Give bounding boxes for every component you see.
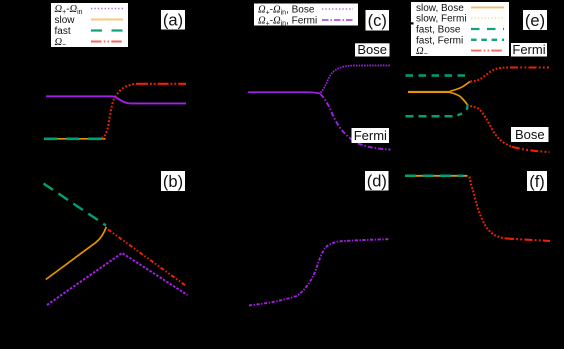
svg-text:fast, Bose: fast, Bose — [416, 25, 461, 36]
red lower Bose curve (e) — [470, 106, 512, 147]
red omega-minus rise (a) — [102, 84, 138, 138]
label (c) — [366, 10, 390, 31]
purple omega-plus curve (a) — [46, 96, 186, 103]
label Fermi (c) — [352, 128, 390, 143]
axis tick mark over legend box — [411, 22, 414, 24]
green tick at lower fork end (e) — [466, 105, 469, 111]
green fast line (b) — [44, 184, 107, 226]
purple sigmoid (d) — [249, 239, 390, 305]
label (f) — [527, 171, 547, 191]
svg-text:slow, Bose: slow, Bose — [416, 3, 464, 14]
green fast-Fermi bottom dashes (e) — [406, 114, 463, 117]
red lower Bose flat tail (e) — [512, 147, 550, 152]
red upper Fermi curve rise (e) — [470, 68, 510, 82]
red upper Fermi flat (e) — [510, 66, 549, 68]
label (a) — [161, 10, 185, 30]
label Bose (e) — [511, 127, 549, 142]
legend box (e) — [411, 2, 509, 56]
red omega-minus flat (a) — [137, 83, 186, 85]
orange slow line (b) — [46, 227, 107, 280]
svg-text:(e): (e) — [525, 12, 545, 30]
red omega-minus tail (f) — [506, 238, 550, 241]
orange lower fork (e) — [450, 93, 468, 105]
legend box (c) — [254, 4, 358, 26]
svg-text:fast: fast — [55, 26, 71, 37]
label Bose (c) — [355, 43, 390, 56]
svg-text:(f): (f) — [529, 173, 545, 191]
green fast dashes (f) — [405, 175, 464, 178]
svg-text:(b): (b) — [163, 173, 183, 191]
green fast-Bose top dashes (e) — [406, 74, 467, 77]
purple main horizontal (c) — [248, 92, 321, 93]
label (d) — [365, 171, 389, 191]
red omega-minus descent (f) — [469, 177, 506, 239]
purple Fermi branch dash-dot (c) — [321, 94, 391, 150]
orange slow curve (a) — [44, 138, 106, 140]
red omega-minus line (b) — [108, 230, 186, 287]
purple Bose branch dotted (c) — [321, 66, 391, 93]
svg-text:(d): (d) — [367, 173, 387, 191]
svg-text:(c): (c) — [368, 12, 387, 30]
svg-text:Bose: Bose — [515, 127, 545, 142]
orange slow line (f) — [405, 175, 468, 177]
svg-text:slow, Fermi: slow, Fermi — [416, 14, 467, 25]
orange upper fork (e) — [450, 82, 470, 92]
green fast curve (a) — [44, 137, 106, 140]
svg-text:fast, Fermi: fast, Fermi — [416, 35, 463, 46]
svg-text:Bose: Bose — [357, 42, 387, 57]
label (e) — [523, 10, 547, 30]
label (b) — [161, 171, 185, 191]
svg-text:Fermi: Fermi — [354, 128, 387, 143]
svg-text:Fermi: Fermi — [512, 42, 545, 57]
orange slow horizontal (e) — [408, 91, 450, 93]
svg-text:slow: slow — [55, 15, 76, 26]
svg-text:(a): (a) — [163, 12, 183, 30]
label Fermi (e) — [511, 43, 547, 57]
legend box (a) — [51, 3, 128, 47]
purple omega-plus line (b) — [47, 253, 188, 305]
